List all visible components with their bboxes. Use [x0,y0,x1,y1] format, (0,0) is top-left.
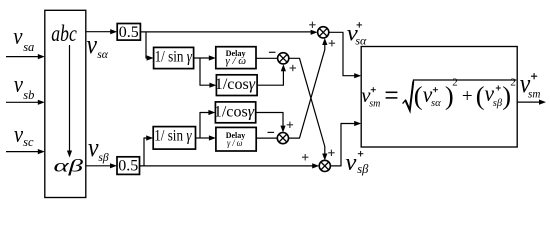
svg-text:1/ sin γ: 1/ sin γ [155,48,193,65]
svg-text:sa: sa [23,40,34,54]
svg-text:v: v [14,72,23,98]
svg-text:abc: abc [51,21,77,46]
svg-text:2: 2 [452,77,458,89]
svg-text:sβ: sβ [98,152,108,164]
svg-text:1/cosγ: 1/cosγ [215,76,256,93]
svg-text:sm: sm [369,99,380,110]
svg-text:sα: sα [431,98,441,109]
svg-text:v: v [87,30,98,59]
svg-text:+: + [462,86,473,107]
svg-text:γ / ω: γ / ω [227,138,243,148]
svg-text:v: v [345,149,356,176]
svg-text:v: v [88,133,99,162]
svg-text:sc: sc [23,135,34,149]
svg-text:1/cosγ: 1/cosγ [214,103,255,120]
svg-text:sα: sα [97,49,108,61]
svg-text:γ / ω: γ / ω [225,56,246,67]
svg-text:0.5: 0.5 [118,157,138,174]
svg-text:sb: sb [23,88,34,102]
svg-text:v: v [13,24,22,50]
svg-text:(: ( [476,81,485,111]
svg-text:2: 2 [510,77,516,89]
svg-text:v: v [14,122,23,148]
svg-text:αβ: αβ [54,156,84,176]
svg-text:sβ: sβ [357,162,369,176]
svg-text:sα: sα [355,33,367,47]
svg-text:0.5: 0.5 [119,24,139,41]
svg-text:(: ( [414,81,423,111]
svg-text:1/ sin γ: 1/ sin γ [154,128,192,145]
svg-text:sm: sm [528,87,541,101]
